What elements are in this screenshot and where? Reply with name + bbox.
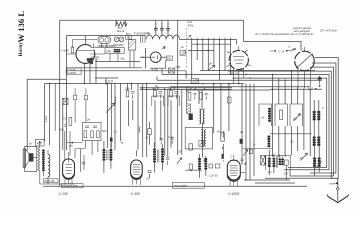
node dot a V4 xyxy=(294,48,296,50)
transformer box small xyxy=(285,160,289,165)
svg-text:µ50: µ50 xyxy=(107,50,112,53)
svg-text:µF: µF xyxy=(209,62,212,66)
resistor box2 xyxy=(215,164,220,168)
svg-text:470k: 470k xyxy=(188,24,194,28)
dark component X xyxy=(261,155,266,165)
IF B core dashes xyxy=(158,150,159,163)
label box PHIL508 xyxy=(172,182,204,188)
wire mid v pair 1b xyxy=(110,83,112,148)
svg-text:C 14: C 14 xyxy=(278,50,284,54)
tube V5 envelope xyxy=(63,159,75,179)
tube V5 internals xyxy=(66,152,72,174)
output transformer winding xyxy=(48,155,50,177)
oscillator coil ladder xyxy=(199,109,204,124)
wire comb rail y44.2 xyxy=(192,43,231,45)
svg-text:120k: 120k xyxy=(125,88,131,91)
power transformer core xyxy=(276,157,277,168)
wire ladder rail 2 xyxy=(312,63,336,173)
osc unit winding left xyxy=(201,130,202,147)
wire vertical x49.6 xyxy=(49,83,51,145)
wire top rail right of coil xyxy=(180,39,237,44)
svg-text:0,1µF: 0,1µF xyxy=(45,115,48,122)
wire mid components to IF xyxy=(129,100,172,148)
trimmer uG lower xyxy=(301,153,308,161)
resistor 470k box xyxy=(209,164,213,168)
wire left border x27.2 xyxy=(26,79,28,150)
svg-text:PHK GB: PHK GB xyxy=(45,179,55,183)
wire resistor mid leads xyxy=(222,131,224,161)
wire ladder rail 3 xyxy=(310,67,334,176)
tight winding column xyxy=(42,149,45,171)
trimmer arrow left xyxy=(107,103,115,113)
wire mid v6 xyxy=(186,90,188,104)
svg-text:6,3: 6,3 xyxy=(268,171,272,174)
tube V2 lamp circle xyxy=(150,52,161,63)
svg-text:1M: 1M xyxy=(168,88,171,91)
gang2 hatch xyxy=(115,38,123,41)
svg-text:ZF = 473 kHz: ZF = 473 kHz xyxy=(319,29,337,33)
svg-text:0,5: 0,5 xyxy=(63,118,67,121)
osc unit winding right xyxy=(204,130,205,147)
bracket pot 3 xyxy=(290,104,303,126)
bracket pair B1 xyxy=(152,96,164,106)
wire ladder rail 6 xyxy=(233,78,327,167)
svg-text:U 400: U 400 xyxy=(131,192,140,196)
node dot anode2 xyxy=(315,88,317,90)
svg-text:Am 2. Drehko bei geschaltetem: Am 2. Drehko bei geschaltetem dem 1 cm D… xyxy=(254,33,314,36)
wire vertical x44.6 xyxy=(44,83,46,141)
gang1 circle b xyxy=(105,38,109,42)
tube V5 base rim xyxy=(63,174,74,178)
svg-text:ota: ota xyxy=(69,145,73,148)
node dot c14 xyxy=(274,50,276,52)
wire mid v pair 4b xyxy=(157,88,159,90)
wire rail y78 short xyxy=(95,78,118,85)
wire osc box drops xyxy=(55,83,98,158)
resistor tall mid xyxy=(221,133,225,141)
pot blob mid xyxy=(240,139,243,144)
vertical comb in middle xyxy=(188,38,231,80)
tube V6 top lead xyxy=(136,150,138,156)
resistor pair C1 xyxy=(170,91,179,99)
svg-text:6.8k: 6.8k xyxy=(176,65,182,69)
IF transformer B winding right xyxy=(161,148,164,162)
capacitor trio leads xyxy=(154,20,170,37)
wire rv7 xyxy=(309,90,311,156)
arrow near comb top xyxy=(188,35,191,38)
bracket1 winding dark xyxy=(268,108,271,122)
wire rv4 xyxy=(290,71,292,155)
wire top bus y20 xyxy=(60,19,244,21)
dark pot blob osc xyxy=(189,114,193,120)
wire rail y89.3 right xyxy=(270,88,322,90)
component boxes top-left pair a xyxy=(74,88,77,106)
wire V3 pin drops xyxy=(234,68,244,84)
svg-text:U 4025: U 4025 xyxy=(228,192,239,196)
trimmer arrow IF B xyxy=(177,158,182,164)
wire left rail y83.4 xyxy=(45,82,244,84)
wire rail y71.8 under V1 xyxy=(66,71,186,79)
winding pair osc bottom left xyxy=(198,158,207,170)
wire comb v6 xyxy=(218,38,220,80)
tube V6 base pins xyxy=(133,179,141,185)
power transformer winding 1 xyxy=(268,158,276,167)
wire mid v pair 5a xyxy=(169,88,171,90)
hatched IF can mid xyxy=(187,104,191,114)
svg-text:1 µF 50: 1 µF 50 xyxy=(209,174,218,177)
trimmer arrow bottom right xyxy=(316,161,322,168)
wire ladder rail 7 xyxy=(200,70,315,72)
wire bottom-right nested corner 2 xyxy=(284,169,329,171)
wire main top rail y35.6 xyxy=(66,35,146,37)
wire rail y133.8 xyxy=(270,133,312,135)
wire rv3 xyxy=(284,80,286,157)
wire osc coil leads xyxy=(199,90,203,158)
resistor 4R7 box xyxy=(36,139,45,146)
node dots osc rail xyxy=(190,87,192,89)
wire vertical x62.8 xyxy=(62,98,64,150)
arrow a near V2 xyxy=(162,47,166,50)
wire nested corners below V3 xyxy=(242,84,254,180)
svg-text:A.M.: A.M. xyxy=(187,20,193,24)
wire rv5 xyxy=(297,87,299,151)
blob mid2 xyxy=(249,149,252,153)
svg-text:µF: µF xyxy=(147,178,150,181)
trimmer uG upper xyxy=(294,114,301,122)
wire cap trio tops xyxy=(156,20,168,26)
tube V7 base pins xyxy=(230,155,245,186)
wire comb v7 xyxy=(224,38,226,71)
gang 2 circle b xyxy=(119,37,124,42)
svg-text:A.Id: A.Id xyxy=(308,86,313,90)
wire comb v3 xyxy=(202,38,204,70)
tube V5 base xyxy=(65,179,72,185)
trimmer arrow mid xyxy=(209,65,216,70)
oscillator box assembly xyxy=(82,122,101,140)
IF transformer right upper xyxy=(313,111,321,121)
speaker magnet bar xyxy=(23,149,25,167)
wire mid rail y87.7 xyxy=(140,87,232,89)
resistor osc row 1 xyxy=(188,92,191,100)
node a dot near V2 xyxy=(164,47,166,49)
bandfilter winding xyxy=(114,49,121,53)
svg-text:µB: µB xyxy=(240,131,243,134)
wire bottom-right nested corner 5 xyxy=(265,170,338,178)
scattered tiny value labels xyxy=(29,32,325,176)
svg-text:6Ω3: 6Ω3 xyxy=(102,130,107,133)
capacitor c-b xyxy=(160,26,164,33)
capacitor right of IF B xyxy=(166,158,169,165)
tube V6 internals xyxy=(133,165,141,175)
svg-text:B.O: B.O xyxy=(126,33,130,36)
IF transformer A winding left xyxy=(102,149,105,161)
wire column right of V5 xyxy=(81,149,85,173)
wire x145.5 drop xyxy=(145,48,147,68)
capacitor mid b xyxy=(171,138,174,144)
wire rail y66.5 under V1 xyxy=(66,67,142,69)
gang1 circle a xyxy=(100,38,104,42)
resistor field zigzag xyxy=(38,147,40,171)
label box under V1 xyxy=(67,68,81,75)
wire transformer box lead xyxy=(285,165,287,180)
wire speaker top lead xyxy=(26,145,28,147)
resistor zigzag top xyxy=(116,22,127,27)
wire osc winding leads xyxy=(200,154,206,178)
capacitor osc row 2 xyxy=(205,93,208,99)
tube V2 inner line xyxy=(152,55,158,59)
resistor x70 vertical xyxy=(69,117,72,125)
label box PHK xyxy=(44,179,58,183)
label box PHILIPS xyxy=(62,184,84,188)
coil scalloped line xyxy=(146,35,179,39)
svg-text:C: C xyxy=(231,156,233,159)
resistor osc row 2 xyxy=(199,92,202,99)
wire comb v5 xyxy=(213,38,215,66)
wire IF can leads xyxy=(130,50,134,68)
tube V4 diagonal xyxy=(296,54,313,69)
power transformer winding 2 xyxy=(278,159,284,166)
wire ground feed xyxy=(331,177,338,179)
svg-text:6.S.D: 6.S.D xyxy=(105,80,114,84)
IF can hatch xyxy=(129,40,135,48)
svg-text:UEL51: UEL51 xyxy=(230,72,239,76)
tuning gang 1 box xyxy=(98,36,111,43)
capacitor mid a xyxy=(160,139,163,145)
wire mid v pair 4a xyxy=(153,88,155,90)
wire rv2 xyxy=(278,78,280,157)
svg-text:LOZtW: LOZtW xyxy=(67,71,76,75)
svg-text:DH-12: DH-12 xyxy=(117,29,125,33)
tube V3 envelope xyxy=(229,50,248,69)
node dot mid xyxy=(186,87,188,89)
wire resistor leads xyxy=(149,122,151,145)
wire mid v pair 5b xyxy=(173,88,175,90)
wire rv1 xyxy=(272,75,274,158)
junction dots scattered xyxy=(49,44,311,181)
tube V3 pin stubs xyxy=(227,50,251,67)
small boxes osc low xyxy=(189,164,192,170)
bracket pair C1 xyxy=(168,96,180,106)
hatched box mid1 xyxy=(180,50,186,55)
gang 2 circle a xyxy=(114,37,119,42)
wire rail y148.5 xyxy=(243,148,273,150)
svg-text:Horny: Horny xyxy=(18,42,24,57)
osc element 3 xyxy=(97,131,100,138)
pot arrow mid xyxy=(243,149,248,156)
tube V7 base rim xyxy=(228,176,240,180)
svg-text:erde: erde xyxy=(330,182,336,186)
wire right top corner drop xyxy=(243,20,245,41)
svg-text:Funk: Funk xyxy=(62,50,68,53)
wire transformer bottom xyxy=(40,143,76,184)
svg-text:220: 220 xyxy=(284,173,289,176)
wire ladder rail 8 xyxy=(157,77,322,81)
wire ladder rail 4 xyxy=(228,71,331,178)
IF can box xyxy=(128,40,135,50)
wire V1 top lead xyxy=(84,36,86,45)
node dot speaker top xyxy=(39,141,41,143)
svg-text:POTMW: POTMW xyxy=(113,43,124,47)
wire rv6 xyxy=(303,89,305,150)
arrow a V4 xyxy=(291,49,295,52)
wire IF right links xyxy=(314,100,319,176)
wire left rail y79.2 xyxy=(27,78,66,80)
bracket pot 1 xyxy=(259,104,271,126)
wire into V2 xyxy=(140,56,166,58)
wire inner left vertical x66.4 xyxy=(65,36,67,150)
node dot y170 xyxy=(190,169,192,171)
svg-text:50µ: 50µ xyxy=(121,58,126,61)
tube V6 base rim xyxy=(131,175,142,179)
svg-text:20k: 20k xyxy=(167,56,172,60)
capacitor blob mid xyxy=(222,154,224,159)
capacitor below V6 xyxy=(148,171,152,178)
wire top link to rectifier xyxy=(244,42,302,51)
capacitor osc row 1 xyxy=(193,93,196,99)
resistor above V6 zigzag xyxy=(139,127,140,133)
IF transformer right middle xyxy=(313,136,321,146)
svg-text:W 136 L: W 136 L xyxy=(16,11,26,43)
wire leads above V5 xyxy=(65,131,70,160)
svg-text:60Ω: 60Ω xyxy=(59,129,64,132)
bracket pot 2 xyxy=(275,104,288,126)
wire bottom mid horizontals xyxy=(245,180,295,183)
resistor pair A1 xyxy=(126,91,134,99)
wire ladder rail 9 xyxy=(170,86,310,88)
node dot c14b xyxy=(286,50,288,52)
wire left frame vertical xyxy=(59,20,61,186)
wire comb link y50.5 xyxy=(188,50,214,52)
node dot osc xyxy=(71,142,73,144)
IF transformer B winding left xyxy=(153,148,156,162)
resistor R-funk xyxy=(71,47,73,53)
wire mid v7 osc xyxy=(201,90,203,110)
wire bottom bus y186.2 xyxy=(43,185,307,187)
tube V6 envelope xyxy=(131,160,143,179)
tube V1 grid line xyxy=(78,50,93,52)
node dot right of V7 xyxy=(244,163,246,165)
IF can stub lines xyxy=(141,36,145,43)
trimmer block a xyxy=(125,36,128,39)
wire comb v1 xyxy=(191,38,193,79)
wire rail y90 mid xyxy=(186,89,270,91)
capacitor right of V7 xyxy=(241,159,244,165)
IF transformer right lower xyxy=(313,157,321,167)
tube V1 box corner xyxy=(73,40,98,48)
wire IF A leads xyxy=(104,141,111,173)
resistor pair B1 xyxy=(154,91,163,99)
wire bottom-right nested corner 1 xyxy=(288,167,327,169)
wire verticals below V1 xyxy=(85,59,97,83)
wire bottom-right nested corner 4 xyxy=(310,172,336,174)
capacitor electrolytic dark xyxy=(110,138,113,142)
ground erde symbol xyxy=(327,179,349,203)
wire comb v2 xyxy=(196,38,198,60)
tube V3 internals xyxy=(233,46,244,64)
resistor box right mid xyxy=(228,97,232,103)
svg-text:U 150: U 150 xyxy=(59,192,68,196)
box with X left xyxy=(63,98,68,104)
wire long mid verticals xyxy=(115,20,229,157)
svg-text:PHIL 508: PHIL 508 xyxy=(174,184,187,188)
tube V1 anode lines xyxy=(66,44,105,58)
wire cap trio bottoms xyxy=(156,33,168,38)
speaker frame xyxy=(25,147,37,172)
arrow up anode xyxy=(317,76,322,85)
trimmer block b xyxy=(129,36,132,39)
component boxes top-left pair b xyxy=(84,88,87,106)
wire mid rail y89.5 xyxy=(140,89,232,91)
capacitor c-a xyxy=(154,26,158,33)
ground dot xyxy=(336,182,338,184)
resistor 20k box xyxy=(166,56,172,60)
transformer cluster bracket xyxy=(266,155,291,170)
osc element 1 xyxy=(84,131,87,138)
svg-text:0,1: 0,1 xyxy=(186,90,190,93)
wire rail y75.5 under V1 xyxy=(96,60,140,62)
osc top caps xyxy=(85,126,97,127)
wire comb v4 xyxy=(207,38,209,70)
wire bottom-right nested corner 3 xyxy=(290,170,334,176)
resistor small left xyxy=(115,97,117,104)
tube V1 envelope xyxy=(76,45,95,64)
wire IF B leads xyxy=(155,142,163,172)
zigzag box osc xyxy=(199,140,204,146)
choke winding right xyxy=(267,136,270,148)
tube V7 internals xyxy=(230,166,238,176)
resistor box right of V6 xyxy=(148,129,151,135)
wire transformer leads xyxy=(269,150,282,175)
wire gang to bandfilter leads xyxy=(102,43,118,61)
shield dashed partition xyxy=(185,28,187,67)
speaker cone lines xyxy=(25,149,36,166)
tube V7 envelope xyxy=(227,160,240,181)
crystal box KLL xyxy=(168,68,174,73)
capacitor c-c xyxy=(166,26,170,33)
wire mid v pair 1a xyxy=(107,83,109,148)
osc element 2 xyxy=(91,131,94,138)
resistor osc mid xyxy=(189,144,193,150)
capacitor cluster left of V7 xyxy=(203,159,206,165)
wire mid v3 xyxy=(142,83,144,157)
capacitor right of V5 xyxy=(82,163,85,165)
wire zigzag drops xyxy=(116,20,126,26)
speaker coil dark xyxy=(29,153,34,161)
tube V1 cathode blob xyxy=(86,58,93,64)
wire ladder rail 1 xyxy=(315,58,338,170)
cap trio dots xyxy=(155,23,156,24)
svg-text:0,1µ: 0,1µ xyxy=(168,136,173,139)
bandfilter box xyxy=(105,48,124,54)
wire y170.2 left of V7 xyxy=(185,169,202,171)
wire ladder rail 5 xyxy=(162,75,329,170)
svg-text:µF: µF xyxy=(262,116,266,120)
oscillator unit box xyxy=(185,128,212,149)
tube V4 stubs xyxy=(298,47,311,89)
tube V4 envelope xyxy=(295,51,315,71)
svg-text:4Ω7: 4Ω7 xyxy=(37,141,43,145)
wire mid v pair 2a xyxy=(127,83,129,90)
node dot anode xyxy=(319,85,321,87)
wire mid v pair 2b xyxy=(130,83,132,90)
wire c14 stubs xyxy=(270,50,292,52)
IF transformer A winding right xyxy=(109,149,112,161)
wire comb v8 xyxy=(230,38,232,75)
hatched box mid2 xyxy=(191,79,198,84)
svg-text:0,1: 0,1 xyxy=(114,130,118,133)
svg-text:4k7: 4k7 xyxy=(217,131,222,134)
wire V2 corner xyxy=(150,61,166,75)
